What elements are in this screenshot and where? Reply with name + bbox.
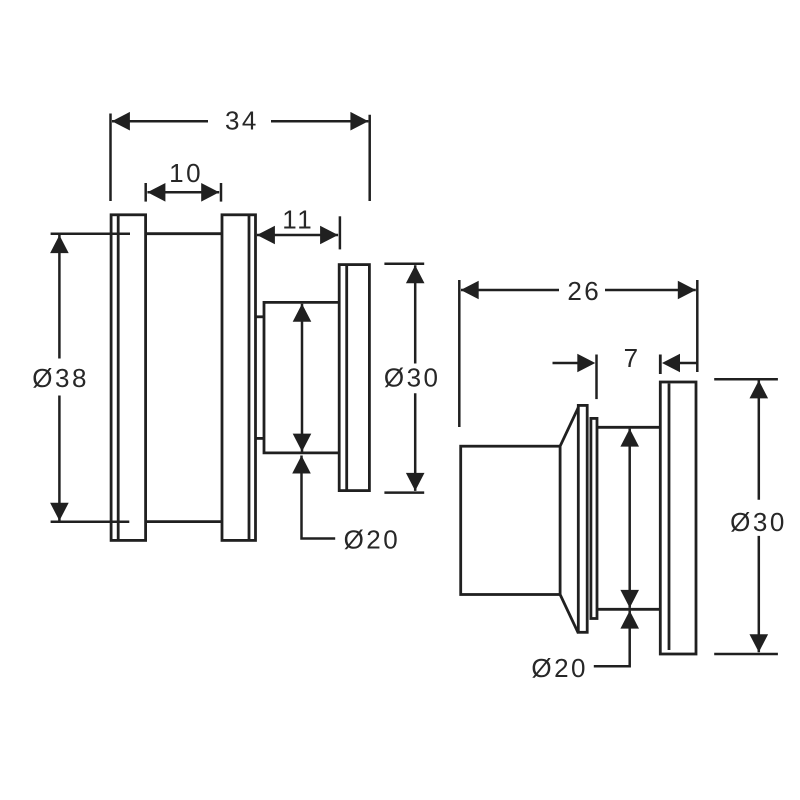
svg-text:26: 26 <box>567 276 601 306</box>
svg-text:7: 7 <box>624 343 641 373</box>
svg-text:Ø30: Ø30 <box>730 507 787 537</box>
svg-text:Ø20: Ø20 <box>344 524 401 554</box>
svg-text:Ø30: Ø30 <box>384 362 441 392</box>
svg-text:11: 11 <box>282 205 314 235</box>
svg-text:34: 34 <box>225 106 259 136</box>
svg-text:Ø38: Ø38 <box>32 363 89 393</box>
svg-text:Ø20: Ø20 <box>531 653 588 683</box>
svg-text:10: 10 <box>169 158 203 188</box>
